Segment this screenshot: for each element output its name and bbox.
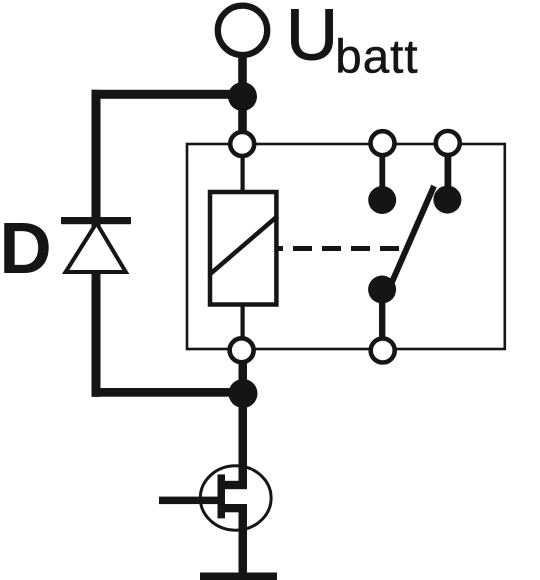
transistor Q1 top arm xyxy=(225,481,248,489)
wire node A to relay pin 1 xyxy=(238,96,247,136)
switch fixed contact 2 xyxy=(433,186,461,214)
switch fixed contact 1 xyxy=(368,186,396,214)
switch stub wire pin2 to fixed contact 1 xyxy=(379,150,385,195)
switch stub wire moving contact to pin 5 xyxy=(379,294,385,345)
transistor Q1 channel bar xyxy=(218,474,226,518)
svg-text:D: D xyxy=(0,208,52,289)
relay pin 4 bottom-left xyxy=(230,338,254,362)
diode D triangle xyxy=(66,223,126,272)
svg-text:U: U xyxy=(286,0,338,75)
node A xyxy=(228,82,257,111)
relay pin 1 top-left xyxy=(230,132,254,156)
wire node B to drain xyxy=(239,390,248,489)
svg-text:batt: batt xyxy=(335,31,418,84)
diode D cathode bar xyxy=(61,217,131,224)
relay coil stub wire bottom xyxy=(241,303,245,343)
relay pin 5 bottom-middle xyxy=(371,339,395,363)
relay box xyxy=(187,144,505,349)
node B xyxy=(229,379,258,408)
switch moving contact xyxy=(368,276,396,304)
switch arm xyxy=(389,186,435,290)
terminal Ubatt xyxy=(218,6,267,55)
wire diode branch to node B (horizontal bottom) xyxy=(92,388,244,397)
relay coil K xyxy=(210,192,276,305)
relay pin 3 top-right xyxy=(436,131,460,155)
ground xyxy=(200,573,277,580)
relay coil diagonal xyxy=(209,216,278,275)
dashed line mechanical link xyxy=(278,246,402,251)
wire diode branch vertical xyxy=(92,90,101,397)
switch stub wire pin3 to fixed contact 2 xyxy=(445,150,452,195)
wire source to ground xyxy=(239,505,248,576)
wire Ubatt terminal to node A xyxy=(238,50,247,97)
transistor Q1 bottom arm xyxy=(224,504,247,512)
relay pin 2 top-middle xyxy=(371,131,395,155)
wire relay pin 4 to node B xyxy=(239,362,248,393)
relay coil stub wire top xyxy=(241,155,245,195)
transistor Q1 gate lead xyxy=(159,497,224,505)
transistor Q1 MOSFET body xyxy=(200,466,271,530)
wire node A to diode branch (horizontal top) xyxy=(92,90,244,99)
